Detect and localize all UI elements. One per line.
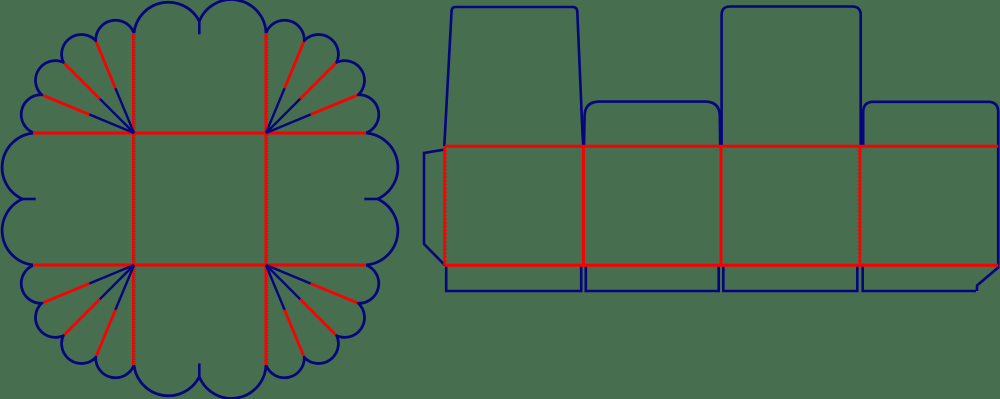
- cut stub at right-middle notch: [364, 198, 377, 201]
- perforation line: panel divider 3-4 (serrated red): [859, 146, 862, 265]
- perforation line: vertical crease left (serrated red): [132, 33, 135, 365]
- bottom dust flap 4 outline: [863, 265, 976, 291]
- bottom dust flap 1 outline: [446, 265, 581, 291]
- perforation line: vertical crease right (serrated red): [264, 33, 267, 365]
- cut line: bottom-left petal slit 11 inner segment: [100, 265, 134, 299]
- cut line: bottom-right petal slit 7 inner segment: [266, 265, 285, 310]
- cut line: right panel edge with chamfer into dust strip: [977, 146, 998, 291]
- cut line: top-right petal slit 6 inner segment: [266, 88, 285, 133]
- fold line: horizontal crease upper (solid red): [33, 132, 366, 135]
- fold line: top horizontal crease (solid red): [445, 145, 998, 148]
- perforation line: bottom-right petal slit 8 outer segment: [300, 299, 335, 334]
- cut stub at bottom-middle notch: [198, 363, 201, 376]
- top flap 3 (tall) outline: [722, 7, 861, 147]
- cut line: top-left petal slit 3 inner segment: [89, 114, 134, 133]
- scalloped round-box blank outline: [2, 0, 398, 398]
- fold line: panel divider 2-3 (solid red): [720, 146, 723, 265]
- cut stub at top-middle notch: [198, 21, 201, 34]
- perforation line: top-right petal slit 5 outer segment: [300, 63, 335, 98]
- cut stub at left-middle notch: [22, 198, 35, 201]
- perforation line: top-left petal slit 3 outer segment: [43, 95, 89, 114]
- perforation line: bottom-right petal slit 7 outer segment: [285, 310, 304, 356]
- cut line: top-left petal slit 2 inner segment: [100, 99, 134, 133]
- perforation line: top-right petal slit 6 outer segment: [285, 42, 304, 88]
- cut line: bottom-left petal slit 10 inner segment: [89, 265, 134, 284]
- cut line: top-right petal slit 4 inner segment: [266, 114, 311, 133]
- perforation line: bottom-left petal slit 11 outer segment: [64, 299, 99, 334]
- cut line: bottom-right petal slit 8 inner segment: [266, 265, 300, 299]
- perforation line: top-right petal slit 4 outer segment: [311, 95, 357, 114]
- perforation line: top-left petal slit 1 outer segment: [96, 42, 115, 88]
- cut line: bottom-left petal slit 12 inner segment: [115, 265, 134, 310]
- perforation line: top-left petal slit 2 outer segment: [64, 63, 99, 98]
- top flap 1 (tall trapezoid) outline: [444, 7, 583, 146]
- fold line: panel divider 1-2 (solid red): [582, 146, 585, 265]
- top flap 4 (short) outline: [863, 102, 998, 146]
- perforation line: bottom-right petal slit 9 outer segment: [311, 284, 357, 303]
- perforation line: glue tab fold (serrated red): [443, 146, 446, 265]
- glue tab outline (left trapezoid): [424, 150, 445, 266]
- bottom dust flap 2 outline: [586, 265, 719, 291]
- perforation line: bottom-left petal slit 10 outer segment: [43, 284, 89, 303]
- bottom dust flap 3 outline: [723, 265, 857, 291]
- perforation line: bottom-left petal slit 12 outer segment: [96, 310, 115, 356]
- fold line: horizontal crease lower (solid red): [33, 264, 366, 267]
- cut line: top-left petal slit 1 inner segment: [115, 88, 134, 133]
- top flap 2 (short) outline: [584, 102, 720, 146]
- cut line: bottom-right petal slit 9 inner segment: [266, 265, 311, 284]
- cut line: top-right petal slit 5 inner segment: [266, 99, 300, 133]
- fold line: bottom horizontal crease (solid red): [445, 264, 998, 267]
